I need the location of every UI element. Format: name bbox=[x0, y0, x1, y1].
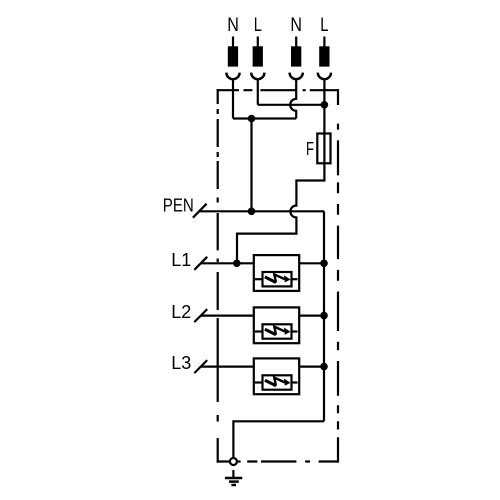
spark gap F2 body bbox=[263, 324, 292, 338]
enclosure border right bbox=[337, 89, 339, 463]
svg-text:F: F bbox=[306, 139, 314, 159]
svg-text:L: L bbox=[254, 14, 262, 36]
surge arrester module F2 box bbox=[254, 307, 299, 343]
wire N1 to N3 horizontal bbox=[233, 117, 296, 119]
wire N1 down bbox=[232, 78, 234, 119]
wire L3 output bbox=[299, 366, 324, 368]
wire PEN horizontal bbox=[199, 210, 324, 212]
L2 line break slash bbox=[194, 309, 207, 322]
svg-text:L2: L2 bbox=[171, 302, 191, 322]
node L2 output junction bbox=[320, 312, 328, 320]
terminal clamp X1.1 bbox=[226, 73, 239, 80]
spark gap F3 lightning arrow bbox=[265, 380, 276, 386]
wire PEN down right bus bbox=[323, 211, 325, 421]
terminal body X1.1 bbox=[228, 46, 238, 66]
svg-text:N: N bbox=[227, 14, 239, 36]
spark gap F2 lightning arrow bbox=[265, 329, 276, 335]
enclosure border top bbox=[217, 89, 338, 91]
node N junction bbox=[248, 115, 256, 123]
wire L2 down bbox=[257, 78, 259, 105]
wire L3 input bbox=[201, 366, 254, 368]
spark gap F1 leads bbox=[255, 278, 263, 280]
surge arrester module F1 box bbox=[254, 255, 299, 291]
wire fuse output to L1 node (hop over PEN) bbox=[237, 163, 324, 263]
wire L2 to L4 horizontal bbox=[258, 104, 325, 106]
wire right bus to PE terminal bbox=[233, 421, 324, 458]
spark gap F3 body bbox=[263, 375, 292, 389]
svg-text:N: N bbox=[290, 14, 302, 36]
surge arrester module F3 box bbox=[254, 358, 299, 394]
node L junction bbox=[321, 101, 329, 109]
wire L2 output bbox=[299, 315, 324, 317]
node L1 input junction bbox=[233, 260, 241, 268]
spark gap F2 leads bbox=[255, 330, 263, 332]
terminal pin X1.1 bbox=[232, 37, 234, 48]
terminal clamp X1.4 bbox=[318, 73, 331, 80]
node L1 output junction bbox=[320, 260, 328, 268]
wire N3 down with hop over L wire bbox=[290, 78, 296, 119]
wire L1 output bbox=[299, 262, 324, 264]
svg-text:L: L bbox=[320, 14, 328, 36]
terminal clamp X1.2 bbox=[251, 73, 264, 80]
node PEN junction bbox=[248, 208, 256, 216]
terminal clamp X1.3 bbox=[290, 73, 303, 80]
terminal pin X1.4 bbox=[323, 37, 325, 48]
PEN line break slash bbox=[193, 204, 207, 218]
fuse F internal wire bbox=[323, 134, 325, 164]
spark gap F1 body bbox=[263, 272, 292, 286]
terminal body X1.3 bbox=[291, 46, 301, 66]
svg-text:L1: L1 bbox=[171, 250, 191, 270]
svg-text:PEN: PEN bbox=[163, 195, 194, 216]
ground symbol bbox=[225, 477, 242, 480]
enclosure border bottom bbox=[217, 460, 338, 462]
terminal pin X1.2 bbox=[257, 37, 259, 48]
PE terminal circle bbox=[230, 458, 237, 465]
spark gap F1 lightning arrow bbox=[265, 277, 276, 283]
terminal body X1.2 bbox=[253, 46, 263, 66]
wire L2 input bbox=[201, 315, 254, 317]
L1 line break slash bbox=[194, 257, 207, 270]
ground stem bbox=[232, 470, 234, 478]
node L3 output junction bbox=[320, 363, 328, 371]
terminal pin X1.3 bbox=[295, 37, 297, 48]
enclosure border left bbox=[217, 89, 219, 463]
spark gap F3 leads bbox=[255, 381, 263, 383]
wire L1 input bbox=[201, 262, 254, 264]
wire L4 down to fuse bbox=[323, 78, 325, 134]
fuse F body bbox=[317, 134, 330, 164]
wire N bus down to PEN bbox=[250, 119, 252, 212]
L3 line break slash bbox=[194, 360, 207, 373]
svg-text:L3: L3 bbox=[171, 353, 191, 373]
terminal body X1.4 bbox=[319, 46, 329, 66]
